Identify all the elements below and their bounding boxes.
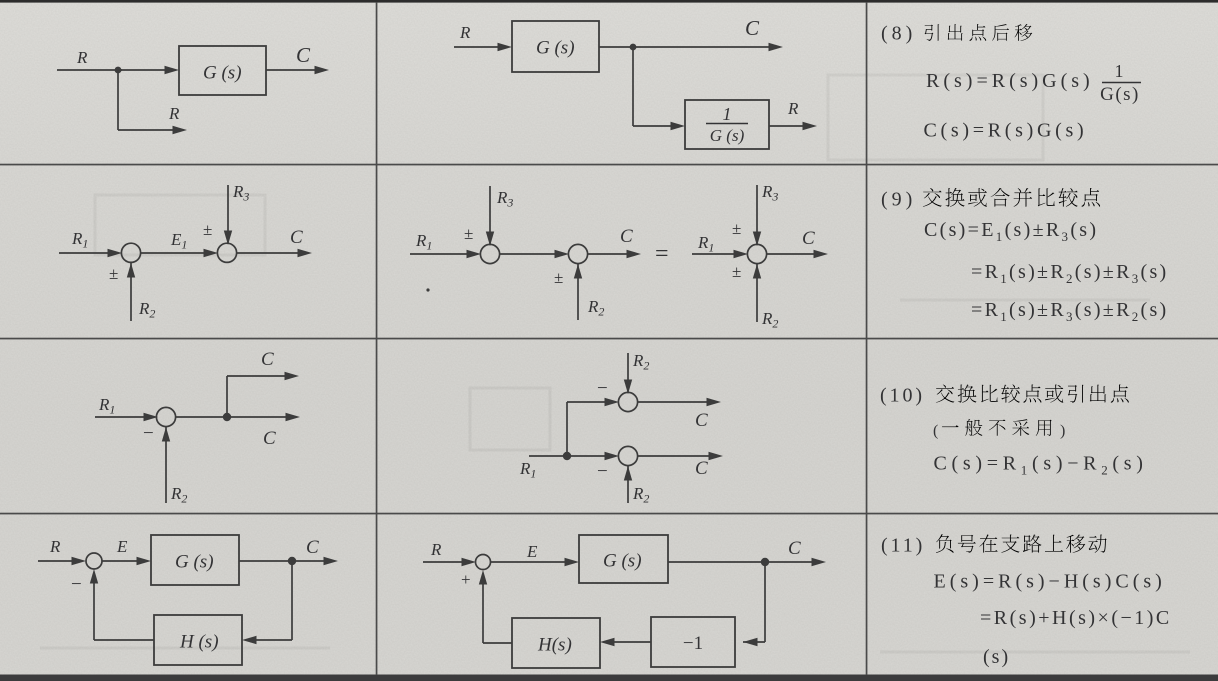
- svg-text:±: ±: [554, 268, 563, 287]
- wire between junctions row2-mid-a: [499, 250, 569, 258]
- wire R3 input row2-mid-b: [753, 185, 761, 246]
- node pickoff row3-left: [223, 413, 231, 421]
- label C row4-left: [306, 537, 319, 558]
- svg-text:C(s)=R1(s)−R2(s): C(s)=R1(s)−R2(s): [934, 453, 1148, 478]
- label R3 row2-mid-a: [496, 188, 513, 210]
- svg-text:(: (: [933, 423, 938, 440]
- label plusminus below row2-left: [109, 264, 118, 283]
- equation (s) cont: [983, 646, 1010, 668]
- label R1 row2-left: [71, 229, 88, 251]
- svg-text:−: −: [71, 574, 82, 595]
- equals sign row2-mid: [655, 241, 669, 267]
- wire R1 input row2-left: [59, 249, 122, 257]
- svg-text:(11): (11): [881, 535, 925, 557]
- summing junction b row2-mid: [747, 244, 766, 263]
- wire E row4-left: [102, 557, 151, 565]
- wire C upper output row3-mid: [637, 398, 721, 406]
- svg-text:H(s): H(s): [537, 635, 572, 656]
- wire C output row2-mid-a: [587, 250, 641, 258]
- wire to lower junction row3-mid: [567, 452, 619, 460]
- svg-text:±: ±: [732, 262, 741, 281]
- svg-text:C: C: [695, 458, 708, 479]
- label heading9 cjk: [923, 188, 1100, 207]
- label C lower row3-mid: [695, 458, 708, 479]
- row divider 3: [0, 513, 1218, 515]
- label R branch row1-left: [168, 104, 180, 123]
- heading (9): [881, 189, 916, 211]
- svg-text:G (s): G (s): [175, 552, 214, 573]
- node pickoff point row1-mid: [630, 44, 637, 51]
- block H(s) row4-left: [154, 615, 242, 665]
- wire E1 row2-left: [140, 249, 218, 257]
- ink speck: [426, 288, 429, 291]
- wire branch to 1/G block row1-mid: [633, 47, 685, 130]
- label plus row4-mid: [461, 570, 471, 589]
- node pickoff row3-mid: [563, 452, 571, 460]
- wire -1 to H row4-mid: [600, 638, 651, 646]
- summing junction a1 row2-mid: [480, 244, 499, 263]
- svg-text:1: 1: [1115, 61, 1124, 81]
- bottom scan edge band: [0, 675, 1218, 681]
- label R1 row3-mid: [519, 459, 536, 481]
- wire R2 upper row3-mid: [624, 353, 632, 394]
- equation =R1(s)+-R2(s)+-R3(s): [971, 261, 1169, 286]
- svg-text:R: R: [76, 48, 88, 67]
- svg-text:±: ±: [464, 224, 473, 243]
- label R1 row2-mid-b: [697, 233, 714, 255]
- svg-text:±: ±: [203, 220, 212, 239]
- row divider 2: [0, 338, 1218, 340]
- label heading11 cjk: [936, 534, 1107, 553]
- summing junction upper row3-mid: [618, 392, 637, 411]
- label R2 row2-mid-b: [761, 309, 778, 331]
- svg-text:(s): (s): [983, 646, 1010, 668]
- wire R1 input row3-left: [95, 413, 158, 421]
- wire R1 input row3-mid: [529, 455, 567, 457]
- summing junction row3-left: [156, 407, 175, 426]
- label C upper row3-mid: [695, 410, 708, 431]
- svg-text:C(s)=R(s)G(s): C(s)=R(s)G(s): [924, 120, 1088, 142]
- wire E row4-mid: [491, 558, 579, 566]
- label C lower row3-left: [263, 428, 276, 449]
- note paren open: [933, 423, 938, 440]
- svg-text:+: +: [461, 570, 471, 589]
- label E row4-left: [116, 537, 128, 556]
- label plusminus bottom row2-mid-b: [732, 262, 741, 281]
- label R1 row2-mid-a: [415, 231, 432, 253]
- svg-text:R: R: [787, 99, 799, 118]
- block H(s) row4-mid: [512, 618, 600, 668]
- summing junction 1 row2-left: [121, 243, 140, 262]
- svg-text:): ): [1060, 423, 1065, 440]
- svg-text:C: C: [306, 537, 319, 558]
- svg-text:(8): (8): [881, 23, 916, 45]
- label R3 row2-left: [232, 182, 249, 204]
- svg-text:(10): (10): [880, 385, 925, 407]
- svg-text:C(s)=E1(s)±R3(s): C(s)=E1(s)±R3(s): [924, 219, 1098, 244]
- summing junction row4-mid: [476, 555, 491, 570]
- bleed-through ghost marks: [40, 75, 1190, 652]
- svg-text:C: C: [802, 228, 815, 249]
- svg-text:E: E: [526, 542, 538, 561]
- svg-text:G(s): G(s): [1100, 84, 1140, 105]
- svg-text:G (s): G (s): [203, 63, 242, 84]
- wire C output row2-left: [236, 249, 312, 257]
- svg-text:−: −: [597, 378, 608, 399]
- wire R input row4-mid: [423, 558, 476, 566]
- equation C(s)=E1(s)+-R3(s): [924, 219, 1098, 244]
- svg-text:E(s)=R(s)−H(s)C(s): E(s)=R(s)−H(s)C(s): [934, 571, 1166, 593]
- svg-text:R: R: [430, 540, 442, 559]
- label R1 row3-left: [98, 395, 115, 417]
- label plusminus r2 row2-mid-a: [554, 268, 563, 287]
- svg-text:C: C: [296, 43, 311, 67]
- svg-text:R: R: [459, 23, 471, 42]
- svg-text:−: −: [143, 423, 154, 444]
- wire C output row4-mid: [668, 558, 826, 566]
- svg-text:(9): (9): [881, 189, 916, 211]
- summing junction lower row3-mid: [618, 446, 637, 465]
- block G(s) row4-left: [151, 535, 239, 585]
- label R input row1-left: [76, 48, 88, 67]
- wire C output row2-mid-b: [766, 250, 828, 258]
- svg-text:=: =: [655, 241, 669, 267]
- label heading10 cjk: [936, 384, 1129, 402]
- svg-text:H (s): H (s): [179, 632, 219, 653]
- node pickoff row4-mid: [761, 558, 769, 566]
- label minus upper row3-mid: [597, 378, 608, 399]
- label C output row2-left: [290, 227, 303, 248]
- wire feedback down row4-mid: [743, 562, 765, 646]
- heading (8): [881, 23, 916, 45]
- svg-text:G (s): G (s): [536, 38, 575, 59]
- svg-text:C: C: [261, 349, 274, 370]
- label C output row1-mid: [745, 16, 760, 40]
- svg-text:C: C: [745, 16, 760, 40]
- block G(s) row1-left: [179, 46, 266, 95]
- label C output row2-mid-b: [802, 228, 815, 249]
- heading (10): [880, 385, 925, 407]
- wire R2 lower row3-mid: [624, 465, 632, 503]
- label R2 row2-left: [138, 299, 155, 321]
- wire feedback to junction row4-mid: [479, 570, 512, 643]
- label R3 row2-mid-b: [761, 182, 778, 204]
- wire R input row1-left: [57, 69, 122, 71]
- label plusminus above row2-left: [203, 220, 212, 239]
- label R2 lower row3-mid: [632, 484, 649, 506]
- svg-text:R(s)=R(s)G(s): R(s)=R(s)G(s): [926, 70, 1094, 92]
- wire feedback to junction row4-left: [90, 569, 154, 640]
- wire R2 input row2-left: [127, 262, 135, 321]
- heading (11): [881, 535, 925, 557]
- equation =R(s)+H(s)x(-1)C: [980, 607, 1172, 629]
- svg-text:1: 1: [723, 104, 732, 124]
- label R2 row2-mid-a: [587, 297, 604, 319]
- wire R2 input row2-mid-b: [753, 263, 761, 322]
- block -1 row4-mid: [651, 617, 735, 667]
- block 1/G(s) row1-mid: [685, 100, 769, 149]
- svg-text:−1: −1: [683, 633, 703, 654]
- svg-text:R: R: [168, 104, 180, 123]
- label minus row3-left: [143, 423, 154, 444]
- wire R input row4-left: [38, 557, 86, 565]
- wire C output row1-left: [266, 66, 329, 74]
- wire C output row4-left: [239, 557, 338, 565]
- label E1 row2-left: [170, 230, 187, 252]
- wire R2 input row3-left: [162, 426, 170, 503]
- label plusminus top row2-mid-b: [732, 219, 741, 238]
- label plusminus r3 row2-mid-a: [464, 224, 473, 243]
- wire R3 input row2-left: [224, 185, 232, 245]
- equation R(s)=R(s)G(s)1/G(s): [926, 61, 1141, 105]
- svg-text:C: C: [620, 226, 633, 247]
- row divider 1: [0, 164, 1218, 166]
- svg-text:G (s): G (s): [710, 126, 745, 145]
- equation C(s)=R(s)G(s): [924, 120, 1088, 142]
- equation C(s)=R1(s)-R2(s): [934, 453, 1148, 478]
- wire feedback down row4-left: [242, 561, 292, 644]
- node pickoff point row1-left: [115, 67, 122, 74]
- wire branch C row3-left: [227, 372, 299, 417]
- label R output row1-mid: [787, 99, 799, 118]
- wire R output row1-mid: [769, 122, 817, 130]
- summing junction a2 row2-mid: [568, 244, 587, 263]
- table top border: [0, 0, 1218, 3]
- label E row4-mid: [526, 542, 538, 561]
- svg-text:±: ±: [732, 219, 741, 238]
- block G(s) row1-mid: [512, 21, 599, 72]
- wire branch R row1-left: [118, 70, 187, 134]
- column divider 2: [866, 2, 868, 675]
- svg-text:C: C: [290, 227, 303, 248]
- wire R3 input row2-mid-a: [486, 186, 494, 246]
- label C upper row3-left: [261, 349, 274, 370]
- summing junction 2 row2-left: [217, 243, 236, 262]
- label R input row1-mid: [459, 23, 471, 42]
- wire C output row3-left: [175, 413, 300, 421]
- wire R2 input row2-mid-a: [574, 263, 582, 320]
- label minus lower row3-mid: [597, 461, 608, 482]
- wire branch up row3-mid: [567, 398, 619, 456]
- label C output row2-mid-a: [620, 226, 633, 247]
- equation E(s)=R(s)-H(s)C(s): [934, 571, 1166, 593]
- label minus row4-left: [71, 574, 82, 595]
- label R2 upper row3-mid: [632, 351, 649, 373]
- wire pickoff to block row1-left: [118, 66, 179, 74]
- column divider 1: [376, 2, 378, 675]
- label heading8 cjk: [925, 24, 1033, 41]
- node pickoff row4-left: [288, 557, 296, 565]
- wire C output row1-mid: [599, 43, 783, 51]
- svg-text:±: ±: [109, 264, 118, 283]
- label R2 row3-left: [170, 484, 187, 506]
- wire R1 input row2-mid-a: [410, 250, 481, 258]
- summing junction row4-left: [86, 553, 102, 569]
- label C output row1-left: [296, 43, 311, 67]
- equation =R1(s)+-R3(s)+-R2(s): [971, 299, 1169, 324]
- label R row4-left: [49, 537, 61, 556]
- label R row4-mid: [430, 540, 442, 559]
- svg-text:C: C: [263, 428, 276, 449]
- wire R input row1-mid: [454, 43, 512, 51]
- svg-text:R: R: [49, 537, 61, 556]
- svg-text:G (s): G (s): [603, 551, 642, 572]
- block G(s) row4-mid: [579, 535, 668, 583]
- note paren close: [1060, 423, 1065, 440]
- svg-text:E: E: [116, 537, 128, 556]
- label C row4-mid: [788, 538, 801, 559]
- svg-text:=R(s)+H(s)×(−1)C: =R(s)+H(s)×(−1)C: [980, 607, 1172, 629]
- wire C lower output row3-mid: [637, 452, 723, 460]
- label note cjk: [942, 419, 1052, 436]
- svg-text:−: −: [597, 461, 608, 482]
- wire R1 input row2-mid-b: [692, 250, 748, 258]
- svg-text:C: C: [788, 538, 801, 559]
- svg-text:C: C: [695, 410, 708, 431]
